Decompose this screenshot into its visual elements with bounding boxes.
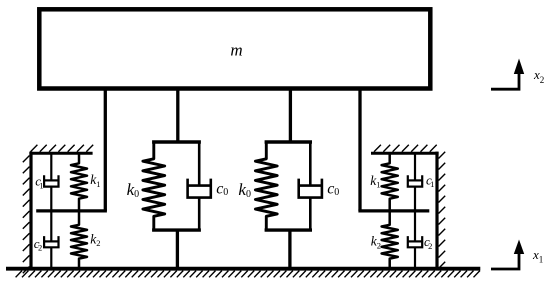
svg-text:k1: k1 — [370, 173, 380, 190]
svg-text:c2: c2 — [424, 234, 432, 251]
svg-text:k2: k2 — [90, 231, 100, 248]
svg-text:c1: c1 — [426, 172, 434, 189]
svg-text:c0: c0 — [216, 180, 228, 198]
svg-text:m: m — [230, 40, 242, 59]
svg-text:c1: c1 — [35, 174, 43, 191]
svg-text:c2: c2 — [34, 236, 42, 253]
svg-text:k1: k1 — [90, 172, 100, 189]
svg-text:k2: k2 — [371, 234, 381, 251]
svg-text:x1: x1 — [532, 247, 543, 265]
svg-text:x2: x2 — [533, 67, 544, 85]
svg-text:k0: k0 — [238, 180, 251, 200]
svg-text:k0: k0 — [127, 180, 140, 200]
svg-text:c0: c0 — [327, 180, 339, 198]
